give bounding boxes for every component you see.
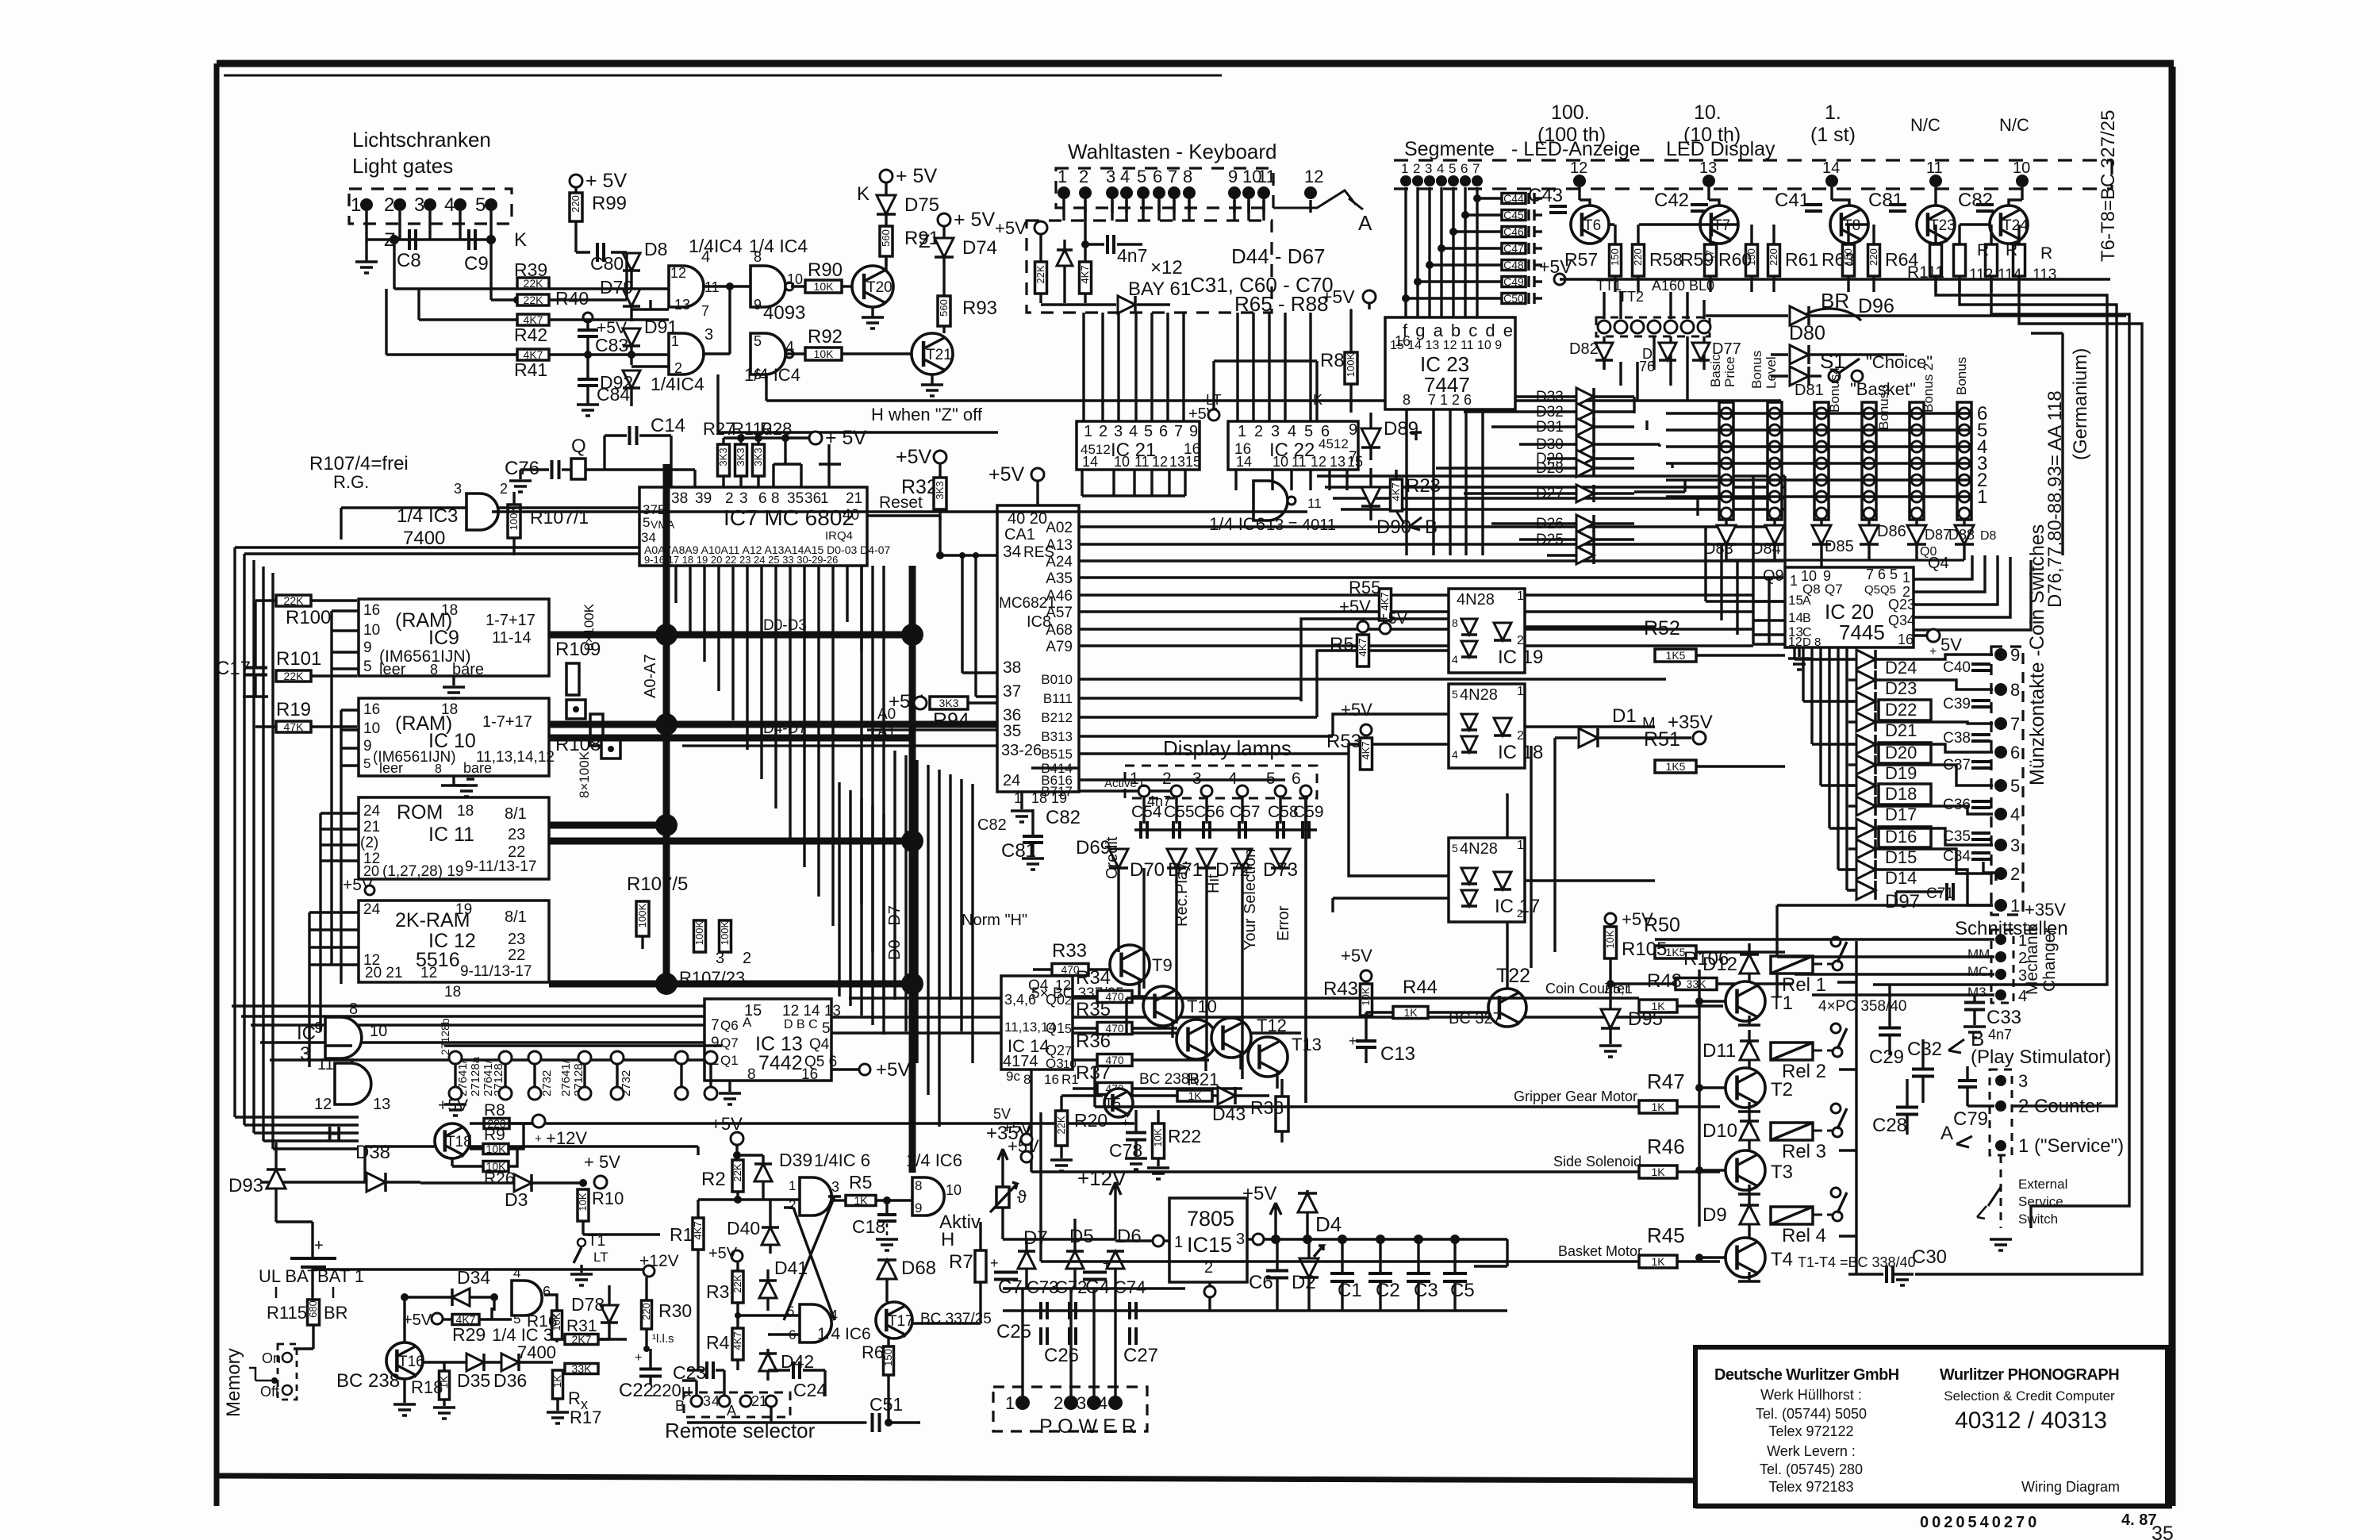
svg-text:9: 9: [363, 639, 372, 656]
svg-text:D1: D1: [1612, 705, 1637, 727]
svg-text:D23: D23: [1885, 678, 1917, 698]
svg-text:R43: R43: [1323, 978, 1358, 1000]
svg-text:14: 14: [1082, 454, 1098, 470]
svg-text:D84: D84: [1752, 540, 1781, 558]
svg-text:10: 10: [1114, 454, 1130, 470]
svg-text:D20: D20: [1885, 743, 1917, 762]
svg-text:10.: 10.: [1694, 102, 1722, 124]
wire bonus columns top feed: [1726, 559, 1964, 561]
svg-text:A: A: [1802, 594, 1811, 608]
svg-text:40312 / 40313: 40312 / 40313: [1955, 1408, 2107, 1434]
svg-text:+5V: +5V: [1003, 1119, 1032, 1137]
wire IC7 left: [497, 506, 639, 509]
svg-text:Basic: Basic: [1708, 354, 1723, 387]
svg-text:8: 8: [1023, 1072, 1031, 1087]
svg-text:1K5: 1K5: [1666, 649, 1686, 662]
wire digit pin to transistor: [1578, 187, 1580, 200]
svg-text:8: 8: [430, 662, 438, 678]
svg-text:22: 22: [508, 947, 525, 964]
bus A0-A7 vertical: [663, 464, 670, 984]
svg-text:H: H: [941, 1229, 954, 1250]
svg-text:8/1: 8/1: [505, 805, 527, 823]
svg-text:8×100K: 8×100K: [577, 751, 592, 798]
svg-text:M3: M3: [1967, 985, 1987, 1000]
svg-text:R22: R22: [1168, 1126, 1201, 1146]
svg-text:A46: A46: [1046, 588, 1073, 605]
svg-text:D75: D75: [904, 194, 939, 216]
wire D25-D33 fan to IC23: [1436, 395, 1576, 397]
svg-text:7: 7: [711, 1017, 720, 1034]
relay switch Rel 2: [1831, 1023, 1841, 1033]
svg-text:10: 10: [363, 622, 380, 639]
svg-text:5: 5: [1137, 167, 1146, 186]
diode BAY61: [1118, 296, 1135, 313]
wire segment caps connections: [1477, 197, 1502, 199]
svg-text:D14: D14: [1885, 868, 1917, 888]
svg-text:4N28: 4N28: [1460, 840, 1498, 858]
resistor R39: [517, 278, 549, 289]
bus IC11 d: [549, 838, 912, 845]
svg-text:C57: C57: [1230, 803, 1261, 821]
svg-text:+35V: +35V: [1668, 712, 1713, 733]
svg-text:D79: D79: [600, 277, 633, 298]
svg-text:7805: 7805: [1187, 1207, 1234, 1231]
svg-text:+5V: +5V: [876, 1059, 910, 1081]
svg-text:+ 5V: + 5V: [584, 1152, 620, 1172]
svg-text:8: 8: [747, 1066, 756, 1083]
svg-text:C82: C82: [1958, 190, 1993, 211]
svg-text:7: 7: [1472, 161, 1480, 176]
svg-text:1K: 1K: [1651, 1000, 1665, 1012]
transistor T21: [842, 352, 912, 355]
svg-text:5: 5: [513, 1311, 520, 1327]
svg-text:33K: 33K: [1687, 977, 1707, 990]
svg-text:16: 16: [1044, 1072, 1059, 1087]
svg-text:3: 3: [1236, 1231, 1245, 1248]
svg-text:D32: D32: [1536, 404, 1564, 421]
svg-text:Your Selection: Your Selection: [1242, 849, 1259, 950]
resistor R30: [642, 1300, 652, 1329]
svg-text:4: 4: [712, 1393, 720, 1409]
resistor R38: [1276, 1096, 1288, 1131]
svg-text:D3: D3: [505, 1189, 528, 1210]
svg-text:2: 2: [384, 194, 394, 216]
svg-text:1/4 IC6: 1/4 IC6: [817, 1325, 871, 1343]
svg-text:4K7: 4K7: [731, 1331, 743, 1350]
svg-text:Reset: Reset: [879, 493, 923, 512]
resistor R7: [975, 1250, 986, 1282]
diode D12: [1740, 954, 1759, 974]
svg-text:D38: D38: [355, 1142, 390, 1163]
title block: [1695, 1347, 2167, 1506]
svg-text:R34: R34: [1076, 967, 1111, 989]
svg-text:5: 5: [1449, 161, 1456, 176]
bus IC12 out: [549, 981, 912, 988]
wire IC8 B-port lines: [1079, 678, 1666, 680]
svg-text:1/4 IC6: 1/4 IC6: [1209, 514, 1265, 534]
svg-text:D24: D24: [1885, 658, 1917, 678]
wire H when Z off: [765, 374, 767, 401]
IC IC23 7447: [1385, 317, 1515, 409]
svg-text:A160 BL0: A160 BL0: [1652, 278, 1714, 294]
svg-text:C39: C39: [1943, 696, 1971, 712]
svg-text:1.: 1.: [1825, 102, 1841, 124]
svg-text:1/4IC4: 1/4IC4: [651, 374, 704, 394]
svg-text:1K: 1K: [854, 1194, 868, 1207]
svg-text:MM: MM: [1967, 947, 1990, 962]
svg-text:T18: T18: [446, 1134, 472, 1150]
svg-text:4: 4: [1452, 653, 1458, 666]
jumper BR arc: [1798, 309, 1861, 321]
svg-text:1: 1: [1517, 839, 1524, 852]
svg-text:+35V: +35V: [2025, 900, 2066, 920]
svg-text:4: 4: [1098, 1393, 1107, 1413]
svg-text:T21: T21: [926, 347, 952, 363]
svg-text:+5V: +5V: [988, 463, 1025, 486]
svg-text:9: 9: [915, 1200, 922, 1215]
svg-text:Q23: Q23: [1888, 597, 1915, 613]
svg-text:C35: C35: [1943, 828, 1971, 845]
svg-text:+ 5V: + 5V: [896, 165, 937, 187]
transistor T6: [1571, 205, 1609, 244]
svg-text:2: 2: [1162, 770, 1172, 788]
capacitors C44-C50: [1502, 194, 1526, 204]
svg-text:B: B: [1802, 612, 1811, 625]
svg-text:bare: bare: [452, 661, 484, 678]
svg-text:D18: D18: [1885, 784, 1917, 804]
svg-text:4: 4: [1120, 167, 1130, 186]
svg-text:+12V: +12V: [639, 1252, 679, 1270]
svg-text:D4: D4: [1315, 1212, 1342, 1236]
svg-text:560: 560: [938, 299, 950, 317]
svg-text:7: 7: [1065, 1045, 1072, 1058]
svg-text:4K7: 4K7: [692, 1221, 704, 1239]
svg-text:8: 8: [435, 762, 442, 776]
wire power pins up: [1021, 1288, 1023, 1403]
svg-text:T4: T4: [1771, 1249, 1793, 1270]
svg-text:R1: R1: [670, 1224, 693, 1245]
svg-text:Q34: Q34: [1888, 613, 1915, 628]
svg-text:Q7: Q7: [720, 1035, 739, 1050]
svg-text:+: +: [535, 1132, 542, 1146]
svg-text:4: 4: [1437, 161, 1444, 176]
svg-text:3: 3: [2018, 1071, 2028, 1091]
connector keyboard: [1056, 168, 1273, 208]
svg-text:Price: Price: [1722, 356, 1737, 387]
svg-text:+ 5V: + 5V: [954, 209, 995, 231]
svg-text:LT: LT: [593, 1250, 608, 1265]
svg-text:N/C: N/C: [1999, 115, 2029, 135]
svg-text:10K: 10K: [486, 1143, 507, 1155]
svg-text:39: 39: [695, 490, 712, 507]
svg-text:12: 12: [420, 965, 437, 981]
svg-text:560: 560: [880, 229, 892, 247]
svg-text:4K7: 4K7: [1079, 265, 1091, 283]
relay Rel 3: [1771, 1123, 1813, 1140]
svg-text:2: 2: [1517, 634, 1524, 647]
svg-text:150: 150: [1609, 248, 1621, 266]
svg-text:9: 9: [1228, 167, 1238, 186]
trimmer: [996, 1187, 1009, 1208]
svg-text:8: 8: [1452, 616, 1458, 629]
diode D80: [1790, 345, 1809, 364]
svg-text:2: 2: [1254, 423, 1263, 440]
resistor keyboard 4K7: [1080, 262, 1092, 294]
svg-text:T10: T10: [1187, 997, 1217, 1016]
svg-text:IC 11: IC 11: [428, 824, 474, 846]
svg-text:13: 13: [373, 1096, 390, 1113]
svg-text:16: 16: [363, 701, 380, 718]
transistor T18: [435, 1123, 470, 1158]
wire bonus rows: [1666, 412, 1971, 414]
svg-text:Deutsche Wurlitzer GmbH: Deutsche Wurlitzer GmbH: [1714, 1366, 1899, 1384]
svg-text:3K3: 3K3: [752, 447, 764, 466]
svg-text:+5V: +5V: [1379, 610, 1408, 628]
svg-text:D36: D36: [493, 1370, 527, 1391]
svg-text:D B C: D B C: [784, 1018, 818, 1031]
svg-text:×12: ×12: [1150, 257, 1183, 278]
svg-text:1: 1: [789, 1178, 796, 1193]
resistor R100: [276, 595, 311, 606]
svg-text:D87: D87: [1925, 527, 1951, 543]
svg-text:18: 18: [457, 803, 474, 820]
svg-text:680: 680: [307, 1300, 319, 1318]
resistor R107/1: [508, 505, 520, 538]
svg-text:24: 24: [363, 901, 381, 918]
svg-text:C29: C29: [1869, 1047, 1904, 1068]
svg-text:C34: C34: [1943, 848, 1971, 865]
crystal Q: [562, 468, 571, 470]
resistor R105: [1605, 913, 1616, 924]
svg-text:Q: Q: [571, 436, 586, 457]
svg-text:10: 10: [370, 1023, 387, 1040]
resistor R92: [805, 348, 842, 360]
capacitor C6: [1266, 1271, 1288, 1278]
svg-text:Z: Z: [919, 231, 931, 252]
gate IC3 b: [335, 1063, 371, 1104]
svg-text:D35: D35: [457, 1370, 490, 1391]
svg-text:1: 1: [759, 1393, 767, 1409]
svg-text:Telex 972122: Telex 972122: [1768, 1423, 1853, 1439]
svg-text:11: 11: [1257, 167, 1276, 186]
svg-text:3: 3: [1106, 167, 1115, 186]
svg-text:D17: D17: [1885, 805, 1917, 824]
resistor R107/23: [694, 920, 706, 952]
svg-text:¹l.l.s: ¹l.l.s: [652, 1332, 674, 1346]
svg-text:7400: 7400: [403, 528, 445, 549]
svg-text:C49: C49: [1503, 275, 1524, 288]
svg-text:D89: D89: [1384, 418, 1418, 440]
svg-text:T9: T9: [1152, 955, 1173, 975]
svg-text:C46: C46: [1503, 225, 1524, 238]
svg-text:D8: D8: [644, 239, 667, 259]
svg-text:IC15: IC15: [1187, 1233, 1232, 1257]
svg-text:D6: D6: [1117, 1226, 1142, 1247]
power +5V R99: [570, 175, 582, 187]
bus D0-D7 vertical: [909, 566, 916, 1173]
svg-text:7: 7: [1174, 423, 1183, 440]
svg-text:Wahltasten - Keyboard: Wahltasten - Keyboard: [1068, 140, 1277, 163]
svg-text:M: M: [1642, 715, 1656, 732]
IC IC19 4N28: [1449, 589, 1525, 673]
svg-text:1: 1: [1058, 167, 1067, 186]
svg-text:C81: C81: [1868, 190, 1903, 211]
svg-text:Basket Motor: Basket Motor: [1558, 1243, 1642, 1259]
svg-text:9c: 9c: [1006, 1069, 1020, 1084]
svg-text:C18: C18: [852, 1216, 885, 1237]
wire gates: [549, 287, 669, 290]
svg-text:1K5: 1K5: [1666, 946, 1686, 958]
resistor R42: [517, 314, 549, 325]
svg-text:R20: R20: [1074, 1110, 1107, 1131]
svg-text:114: 114: [1998, 267, 2022, 283]
svg-text:D93: D93: [228, 1175, 263, 1196]
svg-text:1: 1: [2010, 896, 2020, 916]
svg-text:+ 5V: + 5V: [585, 170, 627, 192]
svg-text:R39: R39: [514, 259, 547, 280]
svg-text:C14: C14: [651, 415, 685, 436]
svg-text:A57: A57: [1046, 605, 1073, 621]
svg-text:1: 1: [1401, 161, 1408, 176]
IC IC9 RAM: [359, 599, 549, 676]
svg-text:+5V: +5V: [1322, 286, 1355, 307]
power +5V IC7: [809, 432, 822, 444]
svg-text:(10 th): (10 th): [1683, 124, 1741, 146]
transistor T1: [1725, 981, 1765, 1021]
resistor R20: [1056, 1111, 1068, 1146]
connector coin switches: [1991, 647, 2023, 915]
svg-text:D33: D33: [1536, 389, 1564, 405]
svg-text:R29: R29: [452, 1324, 486, 1345]
svg-text:R46: R46: [1647, 1135, 1685, 1158]
svg-text:D68: D68: [901, 1258, 936, 1279]
capacitor C23: [707, 1361, 713, 1379]
transistor T4: [1725, 1238, 1765, 1277]
capacitor C13: [1356, 1041, 1376, 1047]
svg-text:13: 13: [1330, 454, 1345, 470]
svg-text:14: 14: [1822, 159, 1840, 177]
svg-text:8: 8: [771, 490, 780, 507]
relay column: [1698, 970, 1700, 1227]
svg-text:D25: D25: [1536, 532, 1564, 548]
svg-text:+: +: [990, 1255, 999, 1271]
svg-text:R30: R30: [658, 1300, 692, 1321]
svg-text:100K: 100K: [693, 920, 705, 945]
wire transistor emitters: [1138, 979, 1140, 997]
svg-text:33K: 33K: [572, 1362, 593, 1375]
svg-text:9: 9: [754, 297, 762, 313]
wire light gate pins: [365, 211, 367, 240]
svg-text:Q4: Q4: [809, 1036, 830, 1053]
svg-text:15: 15: [1185, 454, 1201, 470]
svg-text:1: 1: [351, 194, 361, 216]
wire IC21/22 to IC20 rails: [1317, 474, 1785, 477]
svg-text:R115: R115: [267, 1303, 307, 1323]
svg-text:Error: Error: [1275, 905, 1292, 941]
svg-text:12: 12: [314, 1096, 332, 1113]
svg-text:8: 8: [349, 1000, 358, 1018]
svg-text:C80: C80: [590, 253, 624, 274]
capacitor C78: [1126, 1133, 1146, 1140]
svg-text:(2): (2): [360, 835, 378, 851]
svg-text:A02: A02: [1046, 520, 1073, 536]
svg-text:35: 35: [787, 490, 804, 507]
svg-text:3: 3: [1425, 161, 1432, 176]
svg-text:R18: R18: [411, 1377, 443, 1397]
diode D68: [877, 1260, 896, 1279]
svg-text:18 19: 18 19: [1031, 790, 1067, 806]
svg-text:D9: D9: [1702, 1204, 1727, 1226]
svg-text:1K: 1K: [1403, 1006, 1418, 1019]
svg-text:R45: R45: [1647, 1223, 1685, 1247]
wire IC3 gates: [351, 1058, 353, 1063]
svg-text:R92: R92: [808, 326, 843, 348]
transistor T9: [1110, 945, 1150, 985]
resistor Rx: [565, 1364, 598, 1374]
diode D9: [1740, 1205, 1759, 1224]
svg-text:Switch: Switch: [2018, 1212, 2058, 1227]
capacitor C84: [578, 379, 598, 386]
svg-text:R107/5: R107/5: [627, 874, 688, 895]
wire IC20 right pins up: [1914, 555, 2031, 630]
box keyboard diodes: [1027, 221, 1272, 313]
svg-text:1K: 1K: [1651, 1166, 1665, 1178]
svg-text:7 1 2 6: 7 1 2 6: [1428, 392, 1472, 408]
svg-text:1: 1: [1902, 570, 1910, 586]
svg-text:C54: C54: [1131, 803, 1162, 821]
svg-text:1: 1: [1790, 573, 1798, 589]
svg-text:R100: R100: [286, 607, 331, 628]
svg-text:1: 1: [1084, 423, 1092, 440]
svg-text:4: 4: [830, 1308, 838, 1323]
svg-text:T24: T24: [2002, 217, 2029, 234]
wire keyboard to IC21/22: [1084, 200, 1086, 213]
node B play stimulator: [1948, 1039, 1964, 1053]
svg-text:9: 9: [711, 1035, 720, 1051]
svg-text:BR: BR: [1821, 289, 1849, 313]
svg-text:R107/4=frei: R107/4=frei: [309, 453, 409, 474]
svg-text:10K: 10K: [814, 348, 835, 360]
svg-text:Q9: Q9: [1763, 567, 1784, 585]
svg-text:A13: A13: [1046, 537, 1073, 554]
svg-text:2: 2: [751, 1393, 759, 1409]
wire +35V rail: [1777, 904, 1993, 906]
bus IC10 data: [549, 721, 666, 728]
capacitor C4: [1083, 1273, 1107, 1280]
svg-text:40: 40: [843, 507, 859, 524]
svg-text:8/1: 8/1: [505, 908, 527, 926]
svg-text:T17: T17: [888, 1313, 914, 1330]
svg-text:D80: D80: [1789, 322, 1825, 344]
svg-text:Q5Q5: Q5Q5: [1864, 583, 1896, 597]
svg-text:Selection & Credit Computer: Selection & Credit Computer: [1944, 1388, 2115, 1404]
svg-text:+: +: [1349, 1033, 1357, 1049]
diode D10: [1740, 1121, 1759, 1140]
diode D41: [759, 1281, 777, 1298]
svg-text:D44 - D67: D44 - D67: [1231, 244, 1326, 268]
resistor R6: [884, 1346, 894, 1375]
svg-text:3: 3: [1271, 423, 1280, 440]
connector counter: [1990, 1070, 2012, 1155]
svg-text:12: 12: [1570, 159, 1587, 177]
svg-text:(Play Stimulator): (Play Stimulator): [1971, 1047, 2111, 1068]
resistor R22: [1153, 1123, 1165, 1158]
svg-text:2: 2: [1079, 167, 1088, 186]
svg-text:9: 9: [363, 738, 372, 755]
wire relay contacts rail: [1855, 941, 1857, 1274]
svg-text:4K7: 4K7: [1379, 592, 1391, 610]
svg-text:R42: R42: [514, 325, 547, 345]
